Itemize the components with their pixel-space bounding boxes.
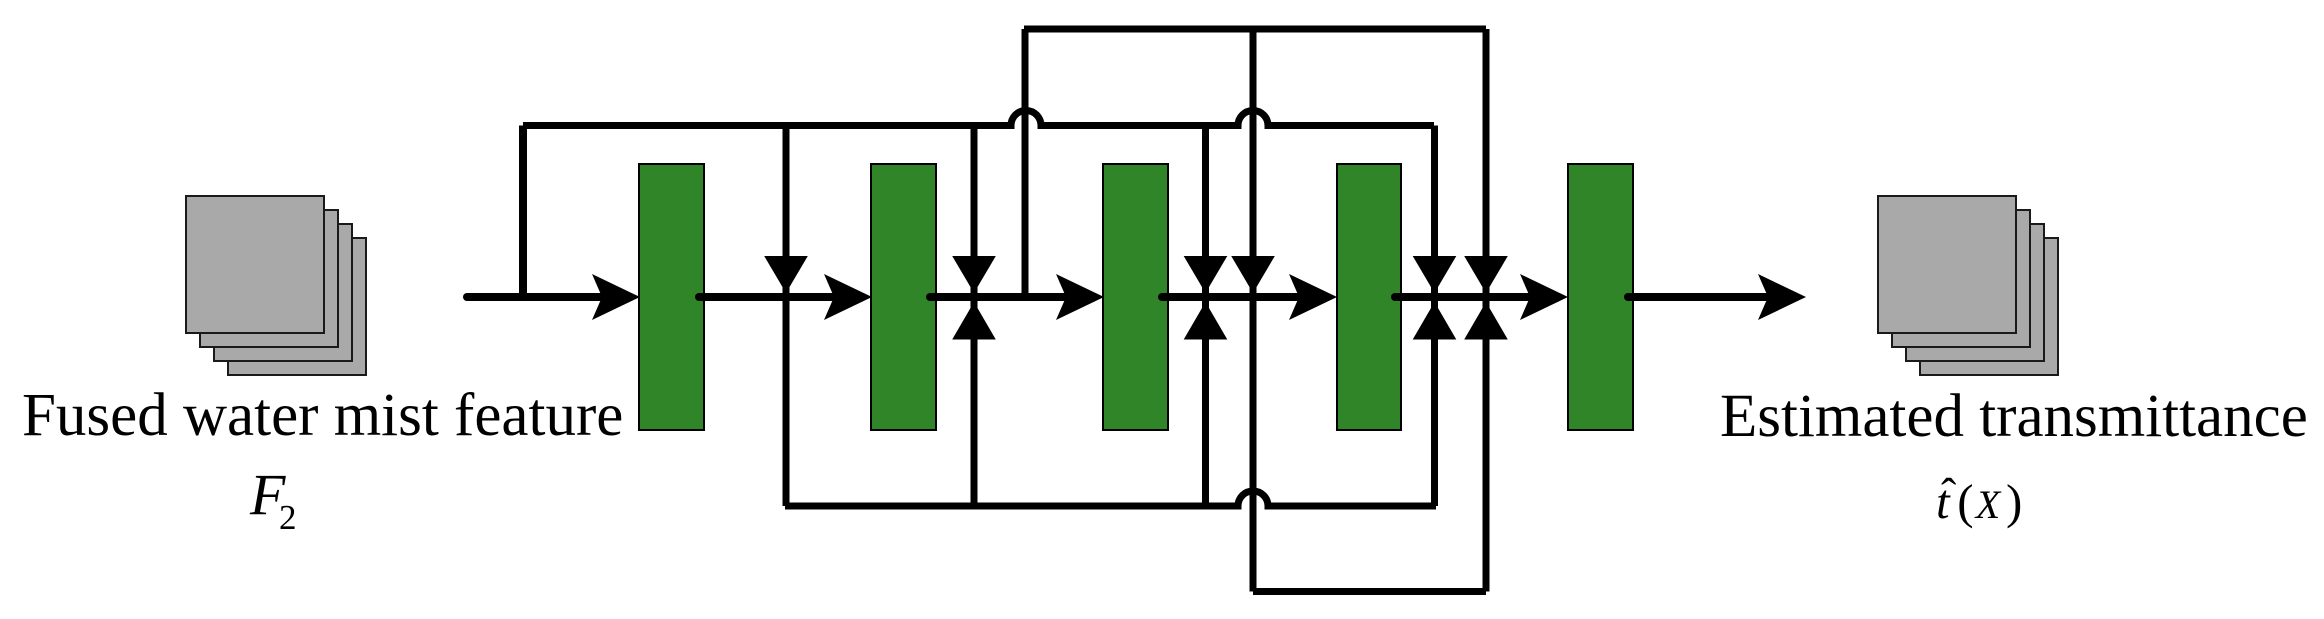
wire: vertical x=1434 [1431,126,1438,507]
arrowhead into bar 2 [824,274,872,320]
wire: vertical x=1025 from top line down to main (no arrow) [1022,29,1029,297]
wire: upper skip line y=125.5 with hops at 1025,1251 [523,111,1434,126]
wire: vertical x=1251 from top line to bottom outer line [1250,29,1257,592]
wire: main line segment bar1 to bar2 [699,293,836,301]
svg-text:): ) [2006,474,2022,529]
wire: vertical x=786 from upper skip through main to bottom skip [783,126,790,507]
output arrowhead [1758,274,1806,320]
wire: bottom outer line y=593 [1253,588,1486,595]
input feature map stack (gray squares) [186,196,366,375]
wire: top skip line y=27 [1024,26,1486,33]
wire: vertical x=975 [971,126,978,507]
wire: vertical x=1206 [1202,126,1209,507]
arrowhead into bar 4 [1289,274,1337,320]
conv layer bar 3 [1103,164,1168,430]
up arrowhead at x=1206 [1184,302,1228,340]
wire: input tee vertical x=523 [519,126,527,302]
wire: main line segment bar2 to bar3 [930,293,1068,301]
svg-text:X: X [1974,482,2002,527]
down arrowhead at x=1206 [1184,256,1228,293]
up arrowhead at x=1486 [1464,302,1508,340]
svg-text:ˆ: ˆ [1941,469,1956,520]
output feature map stack (gray squares) [1878,196,2058,375]
svg-text:Fused water mist feature: Fused water mist feature [22,382,623,449]
conv layer bar 4 [1337,164,1401,430]
wire: main horizontal line under bars [467,293,606,301]
conv layer bar 1 [639,164,704,430]
conv layer bar 5 [1568,164,1633,430]
svg-text:2: 2 [279,498,297,537]
wire: bottom skip line y=504 with hop at 1251 [785,491,1436,506]
wire: main line segment bar3 to bar4 [1162,293,1300,301]
arrowhead into bar 5 [1520,274,1568,320]
up arrowhead at x=975 [952,302,996,340]
down arrowhead at x=1434 [1413,256,1457,293]
down arrowhead at x=1251 [1231,256,1275,293]
conv layer bar 2 [871,164,936,430]
down arrowhead at x=975 [952,256,996,293]
arrowhead into bar 1 [592,274,640,320]
wire: main line segment bar4 to bar5 [1395,293,1532,301]
wire: vertical x=1486 top line right end to bottom outer right end [1483,29,1490,592]
wire: output line from bar5 [1628,293,1770,301]
down arrowhead at x=1486 [1464,256,1508,293]
arrowhead into bar 3 [1056,274,1104,320]
svg-text:(: ( [1957,474,1973,529]
down arrowhead at x=786 [764,256,808,293]
up arrowhead at x=1434 [1413,302,1457,340]
svg-text:Estimated transmittance: Estimated transmittance [1720,383,2308,450]
